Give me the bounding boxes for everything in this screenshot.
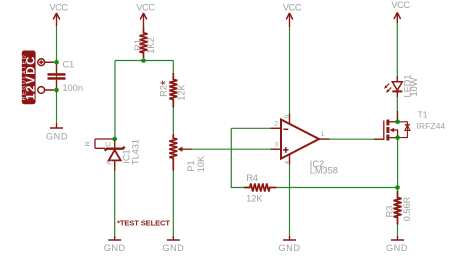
svg-text:GND: GND: [279, 243, 301, 253]
wire P1 to GND: [172, 171, 174, 237]
svg-text:A: A: [107, 160, 114, 165]
ground GND2: [162, 236, 184, 253]
svg-text:T1: T1: [418, 110, 428, 120]
svg-text:VCC: VCC: [136, 3, 155, 13]
ground GND1: [104, 236, 126, 253]
svg-text:100n: 100n: [63, 83, 83, 93]
supply terminal plus: [38, 59, 54, 66]
svg-text:GND: GND: [162, 243, 184, 253]
TL431 IC1: [85, 139, 140, 171]
svg-text:C: C: [105, 142, 112, 147]
VCC symbol 2: [136, 3, 155, 28]
svg-text:LM358: LM358: [310, 165, 338, 175]
wire junction to TL431 cathode: [114, 61, 116, 149]
svg-text:*TEST SELECT: *TEST SELECT: [117, 219, 170, 228]
svg-text:R: R: [85, 141, 92, 146]
supply terminal minus: [38, 87, 54, 94]
svg-text:R2: R2: [159, 85, 169, 97]
wire opamp output to gate: [319, 138, 384, 140]
svg-text:R1: R1: [133, 39, 143, 51]
wire source to sense junction: [397, 138, 399, 188]
svg-text:0.56R: 0.56R: [402, 196, 412, 221]
ground GND4: [386, 236, 408, 253]
svg-text:GND: GND: [104, 243, 126, 253]
svg-text:GND: GND: [386, 243, 408, 253]
LED LED1: [384, 75, 419, 98]
svg-text:IRFZ44: IRFZ44: [417, 121, 446, 131]
VCC symbol 1: [49, 3, 68, 27]
wire R2 top stub net: [172, 61, 174, 74]
wire drain pin stub: [397, 111, 399, 122]
svg-text:12K: 12K: [177, 83, 187, 100]
junction dot drain: [395, 120, 400, 125]
junction dot R1 bottom: [141, 58, 146, 63]
junction dot supply plus: [54, 60, 59, 65]
op-amp IC2 LM358: [271, 114, 338, 176]
ground GND0: [46, 123, 68, 142]
svg-text:VCC: VCC: [391, 0, 410, 10]
wire P1 wiper to opamp pin3: [192, 148, 281, 150]
svg-text:R3: R3: [385, 206, 395, 218]
wire VCC4 to LED: [396, 23, 398, 81]
svg-text:C1: C1: [63, 60, 75, 70]
svg-text:1K2: 1K2: [146, 37, 156, 53]
wire opamp pin2 feedback: [231, 128, 281, 187]
svg-text:12K: 12K: [246, 194, 263, 204]
svg-text:*: *: [157, 80, 172, 85]
wire R3 to GND: [397, 188, 399, 237]
svg-text:10W: 10W: [409, 77, 419, 96]
wire VCC1 to GND (C1 branch): [56, 26, 58, 123]
capacitor C1: [48, 60, 83, 94]
svg-text:VCC: VCC: [283, 3, 302, 13]
potentiometer P1: [169, 134, 206, 172]
resistor R2: [157, 73, 186, 108]
svg-text:2: 2: [274, 121, 278, 128]
svg-text:1: 1: [321, 131, 325, 138]
svg-text:GND: GND: [46, 132, 68, 142]
svg-text:8: 8: [284, 114, 291, 118]
svg-text:VCC: VCC: [49, 3, 68, 13]
svg-text:10K: 10K: [196, 155, 206, 172]
wire opamp pin4 to GND: [289, 155, 291, 237]
wire TL431 anode to GND: [114, 161, 116, 236]
wire VCC3 to opamp pin8: [289, 27, 291, 124]
MOSFET T1 IRFZ44: [374, 110, 445, 141]
junction dot sense node: [395, 185, 400, 190]
resistor R3: [385, 191, 412, 225]
junction dot supply minus: [54, 88, 59, 93]
VCC symbol 3: [283, 3, 302, 28]
junction dot TL431 cathode: [112, 137, 117, 142]
VCC symbol 4: [391, 0, 410, 23]
wire LED cathode to drain: [396, 92, 398, 122]
svg-text:12VDC: 12VDC: [25, 55, 37, 100]
resistor R1: [133, 27, 156, 58]
wire R4 right to sense junction: [277, 187, 398, 189]
resistor R4: [244, 173, 277, 204]
svg-text:P1: P1: [186, 160, 196, 171]
svg-text:R4: R4: [246, 173, 258, 183]
svg-text:4: 4: [284, 160, 291, 164]
wire R1 junction horizontal: [115, 60, 173, 62]
supply SUP1 12VDC box: [22, 51, 38, 105]
svg-text:3: 3: [274, 142, 278, 149]
ground GND3: [279, 236, 301, 253]
svg-text:TL431: TL431: [130, 139, 140, 165]
junction dot source: [395, 135, 400, 140]
wire R2 to P1: [172, 108, 174, 135]
